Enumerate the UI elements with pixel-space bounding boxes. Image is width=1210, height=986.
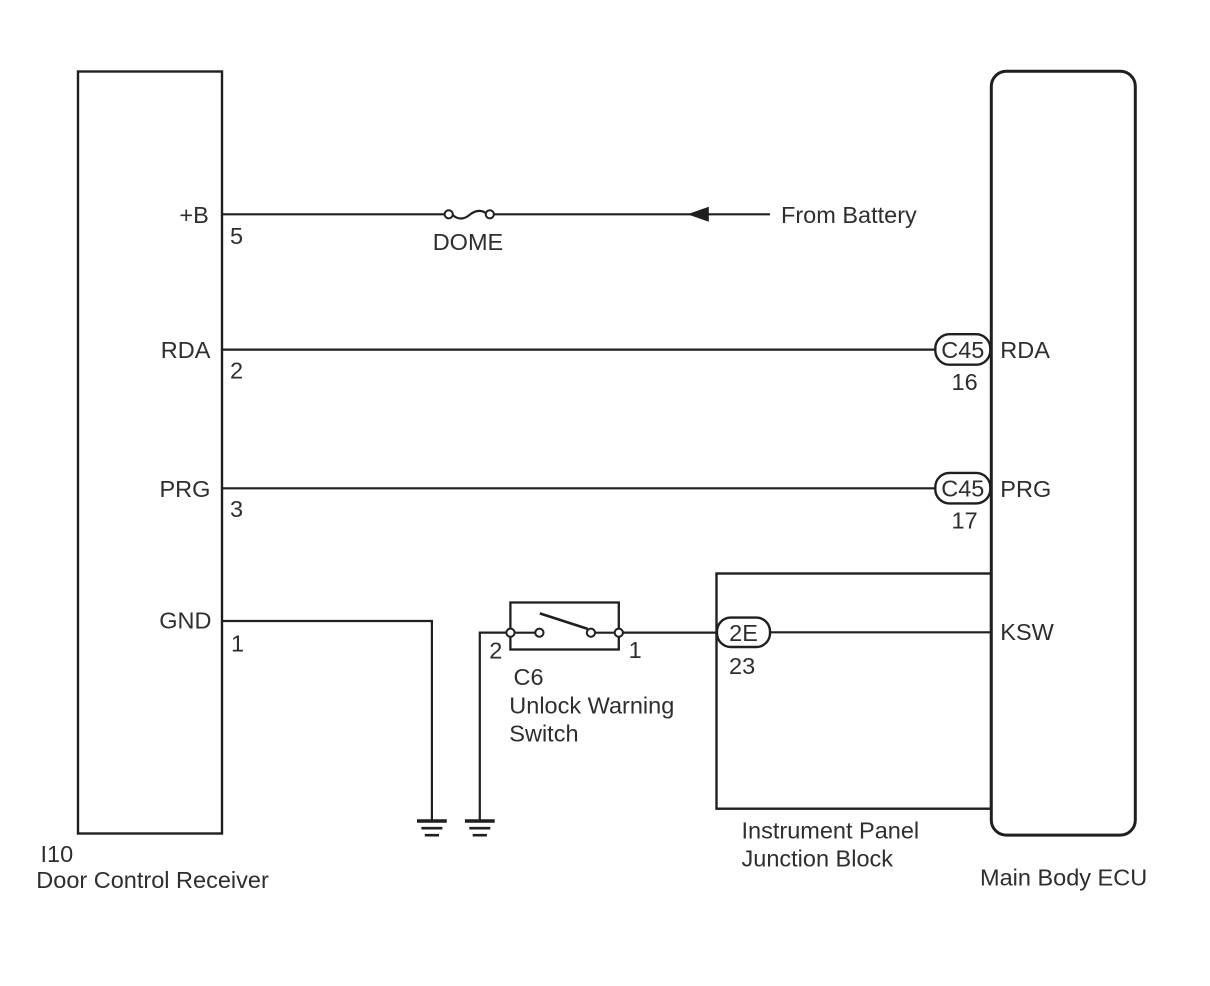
switch contact circle inner left	[535, 629, 543, 637]
wire PRG	[222, 487, 936, 489]
svg-text:I10: I10	[41, 841, 74, 867]
switch terminal circle on left edge	[506, 629, 514, 637]
wire RDA	[222, 349, 936, 351]
svg-text:Main Body ECU: Main Body ECU	[980, 865, 1147, 891]
switch terminal circle on right edge	[615, 629, 623, 637]
switch contact circle inner right	[587, 629, 595, 637]
fuse terminal circle left	[445, 210, 453, 218]
svg-text:C45: C45	[941, 337, 984, 363]
switch C6 box	[510, 603, 618, 650]
svg-text:PRG: PRG	[159, 476, 210, 502]
connector C45 upper	[935, 334, 990, 365]
junction block box	[717, 574, 992, 809]
svg-text:PRG: PRG	[1000, 476, 1051, 502]
svg-text:5: 5	[230, 223, 243, 249]
svg-text:1: 1	[629, 637, 642, 663]
wire fuse to From Battery	[494, 213, 770, 215]
switch internal wire left	[512, 632, 537, 634]
wire 2E to KSW	[771, 631, 991, 633]
switch lever	[540, 613, 588, 629]
svg-text:GND: GND	[159, 608, 211, 634]
svg-text:Unlock Warning: Unlock Warning	[509, 692, 674, 718]
svg-text:DOME: DOME	[433, 229, 504, 255]
svg-text:RDA: RDA	[161, 337, 211, 363]
svg-text:2E: 2E	[729, 620, 758, 646]
ground symbol right	[465, 821, 495, 835]
ECU box Main Body ECU	[991, 71, 1135, 835]
svg-text:17: 17	[952, 508, 978, 534]
svg-text:Junction Block: Junction Block	[742, 845, 894, 871]
svg-text:2: 2	[489, 638, 502, 664]
svg-text:From Battery: From Battery	[781, 202, 917, 228]
svg-text:Switch: Switch	[509, 720, 578, 746]
svg-text:3: 3	[230, 496, 243, 522]
wire GND to ground	[222, 621, 432, 821]
arrowhead pointing left	[687, 207, 709, 222]
connector C45 lower	[935, 473, 990, 504]
svg-text:Door Control Receiver: Door Control Receiver	[36, 867, 269, 893]
wire switch pin2 to ground	[480, 633, 511, 821]
connector 2E	[717, 618, 770, 647]
svg-text:KSW: KSW	[1000, 619, 1054, 645]
svg-text:C45: C45	[941, 476, 984, 502]
svg-text:23: 23	[729, 653, 755, 679]
switch internal wire right	[593, 632, 617, 634]
connector box I10 Door Control Receiver	[78, 72, 222, 834]
svg-text:1: 1	[231, 630, 244, 656]
ground symbol left	[417, 821, 447, 835]
wire switch pin1 to 2E	[623, 631, 718, 633]
fuse DOME element curve	[453, 211, 486, 219]
svg-text:Instrument Panel: Instrument Panel	[742, 818, 920, 844]
svg-text:+B: +B	[179, 202, 208, 228]
svg-text:RDA: RDA	[1000, 337, 1050, 363]
fuse terminal circle right	[486, 210, 494, 218]
svg-text:C6: C6	[514, 664, 544, 690]
svg-text:2: 2	[230, 357, 243, 383]
wire +B pin 5 to fuse	[222, 213, 445, 215]
svg-text:16: 16	[952, 369, 978, 395]
